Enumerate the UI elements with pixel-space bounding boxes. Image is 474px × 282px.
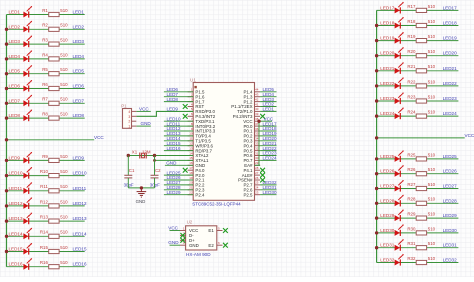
wire VCC to EA# vertical — [258, 121, 260, 165]
svg-text:510: 510 — [428, 152, 436, 157]
svg-text:R20: R20 — [407, 49, 416, 54]
svg-text:LED16: LED16 — [167, 146, 181, 151]
LED LED7 — [23, 95, 32, 107]
wire net LED7 — [7, 102, 85, 104]
svg-text:510: 510 — [428, 94, 436, 99]
svg-text:LED30: LED30 — [443, 228, 457, 233]
svg-text:LED9: LED9 — [73, 155, 85, 160]
pin 13 RD/P3.7 — [188, 146, 213, 153]
svg-text:LED6: LED6 — [9, 84, 21, 89]
svg-text:R30: R30 — [407, 226, 416, 231]
svg-text:LED12: LED12 — [9, 201, 23, 206]
svg-text:31: 31 — [255, 151, 259, 155]
resistor R26 — [416, 172, 426, 176]
svg-text:14: 14 — [189, 151, 193, 155]
LED LED28 — [395, 195, 404, 207]
LED LED29 — [395, 210, 404, 222]
svg-text:R3: R3 — [42, 38, 48, 43]
wire net LED15 — [7, 251, 85, 253]
svg-text:510: 510 — [428, 241, 436, 246]
svg-text:17: 17 — [189, 166, 193, 170]
svg-text:R13: R13 — [40, 215, 49, 220]
pin 2 P1.6 — [188, 93, 205, 100]
LED LED22 — [395, 77, 404, 89]
wire net LED8 to U1 — [164, 101, 193, 103]
resistor R17 — [416, 8, 426, 12]
wire net LED12 to U1 — [164, 130, 193, 132]
wire net GND from P1 pin 1 — [136, 125, 151, 127]
resistor R23 — [416, 99, 426, 103]
svg-text:VCC: VCC — [94, 135, 104, 140]
junction LED13 bus — [5, 219, 8, 222]
pin 27 ALE# — [242, 171, 260, 178]
svg-text:510: 510 — [428, 49, 436, 54]
LED LED25 — [395, 150, 404, 162]
svg-text:LED30: LED30 — [380, 228, 394, 233]
pin 32 P0.5 — [243, 146, 260, 153]
svg-text:LED9: LED9 — [9, 155, 21, 160]
svg-text:LED2: LED2 — [9, 24, 21, 29]
capacitor C2 — [151, 175, 159, 178]
junction VCC tap right — [375, 136, 378, 139]
svg-text:15: 15 — [189, 156, 193, 160]
LED LED27 — [395, 180, 404, 192]
crystal X1 — [140, 153, 146, 159]
svg-text:R7: R7 — [42, 97, 48, 102]
svg-text:R4: R4 — [42, 52, 48, 57]
wire net LED32 — [377, 262, 459, 264]
junction LED2 bus — [5, 28, 8, 31]
svg-text:LED3: LED3 — [9, 39, 21, 44]
svg-text:LED7: LED7 — [73, 98, 85, 103]
svg-text:LED25: LED25 — [380, 154, 394, 159]
svg-text:LED29: LED29 — [167, 190, 181, 195]
svg-text:LED24: LED24 — [380, 111, 394, 116]
junction VCC/EA — [257, 120, 260, 123]
wire net LED26 to U1 — [164, 179, 193, 181]
wire net GND to U2 — [170, 244, 181, 246]
svg-text:4: 4 — [128, 110, 130, 114]
wire net LED14 to U1 — [164, 140, 193, 142]
junction LED31 bus — [375, 246, 378, 249]
junction LED11 bus — [5, 189, 8, 192]
svg-text:LED10: LED10 — [73, 171, 87, 176]
svg-text:X1: X1 — [132, 150, 138, 155]
wire crystal to XTAL2 — [128, 155, 193, 157]
svg-text:R17: R17 — [407, 4, 416, 9]
svg-text:R11: R11 — [40, 184, 48, 189]
svg-text:LED18: LED18 — [443, 21, 457, 26]
LED LED5 — [23, 65, 32, 77]
wire VCC bus right — [376, 10, 378, 262]
pin 15 XTAL1 — [188, 156, 209, 163]
wire net LED31 — [377, 247, 459, 249]
wire net LED3 to U1 — [260, 101, 276, 103]
capacitor C1 — [124, 175, 132, 178]
pin 22 P2.4 — [188, 191, 205, 198]
svg-text:R8: R8 — [42, 112, 48, 117]
wire net LED5 — [7, 73, 85, 75]
svg-text:36: 36 — [255, 127, 259, 131]
junction LED6 bus — [5, 87, 8, 90]
svg-text:510: 510 — [60, 67, 68, 72]
wire net LED5 to U1 — [260, 91, 276, 93]
svg-text:VCC: VCC — [465, 133, 474, 138]
svg-text:LED1: LED1 — [73, 10, 85, 15]
svg-text:18: 18 — [189, 171, 193, 175]
LED LED1 — [23, 6, 32, 18]
wire net LED19 to U1 — [260, 135, 276, 137]
wire net LED4 to U1 — [260, 96, 276, 98]
junction LED30 bus — [375, 231, 378, 234]
pin 44 P1.4 — [243, 88, 260, 95]
svg-text:R28: R28 — [407, 197, 416, 202]
junction LED24 bus — [375, 114, 378, 117]
LED LED14 — [23, 228, 32, 240]
svg-text:3: 3 — [128, 115, 130, 119]
pin 3 D+ of U2 — [180, 236, 195, 243]
pin 20 P2.2 — [188, 181, 205, 188]
resistor R31 — [416, 246, 426, 250]
resistor R15 — [49, 249, 59, 253]
LED LED20 — [395, 47, 404, 59]
wire net LED13 — [7, 220, 85, 222]
svg-text:R21: R21 — [407, 64, 416, 69]
resistor R3 — [49, 42, 59, 46]
no-connect X on E2 — [223, 243, 228, 248]
pin 41 P1.1/T2EX — [231, 102, 260, 109]
svg-text:LED8: LED8 — [73, 113, 85, 118]
svg-text:510: 510 — [428, 4, 436, 9]
wire net LED30 to U1 — [260, 194, 276, 196]
svg-text:P2.5: P2.5 — [243, 192, 253, 197]
svg-text:R19: R19 — [407, 34, 416, 39]
wire net VCC to U1 VCC — [260, 120, 272, 122]
pin 38 VCC — [243, 117, 260, 124]
svg-text:510: 510 — [428, 256, 436, 261]
pin 6 E2 of U2 — [208, 241, 222, 248]
svg-text:R14: R14 — [40, 230, 49, 235]
pin 4 of P1 — [128, 110, 136, 114]
svg-text:LED20: LED20 — [380, 51, 394, 56]
svg-text:43: 43 — [255, 93, 259, 97]
resistor R1 — [49, 12, 59, 16]
svg-text:LED18: LED18 — [380, 21, 394, 26]
svg-text:510: 510 — [428, 212, 436, 217]
LED LED19 — [395, 32, 404, 44]
svg-text:LED20: LED20 — [443, 51, 457, 56]
svg-text:LED31: LED31 — [380, 243, 394, 248]
svg-text:LED28: LED28 — [380, 198, 394, 203]
svg-text:26: 26 — [255, 176, 259, 180]
wire net LED11 — [7, 190, 85, 192]
svg-text:1: 1 — [128, 125, 130, 129]
resistor R5 — [49, 72, 59, 76]
pin 40 T2/P1.0 — [237, 107, 260, 114]
svg-text:U2: U2 — [187, 219, 193, 224]
wire VCC tap right — [377, 137, 465, 139]
svg-text:11: 11 — [189, 137, 192, 141]
junction LED25 bus — [375, 157, 378, 160]
wire net LED15 to U1 — [164, 145, 193, 147]
resistor R6 — [49, 86, 59, 90]
svg-text:GND: GND — [166, 161, 177, 166]
wire net LED21 — [377, 70, 459, 72]
wire net LED18 to U1 — [260, 130, 276, 132]
resistor R9 — [49, 158, 59, 162]
wire net LED8 — [7, 117, 85, 119]
pin 23 P2.5 — [243, 191, 260, 198]
wire net LED28 — [377, 202, 459, 204]
svg-text:510: 510 — [428, 182, 436, 187]
svg-text:R12: R12 — [40, 199, 49, 204]
svg-text:28: 28 — [255, 166, 259, 170]
wire net LED25 to U1 — [164, 174, 193, 176]
svg-text:25: 25 — [255, 181, 259, 185]
svg-text:510: 510 — [60, 112, 68, 117]
svg-text:LED21: LED21 — [443, 66, 457, 71]
wire net LED20 — [377, 55, 459, 57]
LED LED13 — [23, 213, 32, 225]
svg-text:R5: R5 — [42, 67, 48, 72]
pin 11 T1/P3.5 — [188, 137, 212, 144]
svg-text:13: 13 — [189, 146, 193, 150]
pin 35 P0.2 — [243, 132, 260, 139]
svg-text:LED9: LED9 — [167, 107, 179, 112]
pin 42 P1.2 — [243, 97, 260, 104]
svg-text:12: 12 — [189, 142, 193, 146]
wire net LED4 — [7, 58, 85, 60]
svg-text:LED11: LED11 — [9, 186, 23, 191]
svg-text:23: 23 — [255, 191, 259, 195]
svg-text:R22: R22 — [407, 79, 416, 84]
svg-text:2: 2 — [128, 120, 130, 124]
wire ground rail — [128, 187, 154, 189]
pin 39 P4.2/INT3 — [233, 112, 260, 119]
svg-text:R10: R10 — [40, 169, 49, 174]
pin 2 of P1 — [128, 120, 136, 124]
junction LED12 bus — [5, 204, 8, 207]
svg-text:34: 34 — [255, 137, 259, 141]
svg-text:LED22: LED22 — [380, 81, 394, 86]
resistor R21 — [416, 69, 426, 73]
pin 5 E1 of U2 — [208, 227, 222, 234]
junction ground — [140, 186, 143, 189]
svg-text:LED24: LED24 — [263, 156, 277, 161]
svg-text:C1: C1 — [129, 168, 135, 173]
svg-text:R2: R2 — [42, 23, 48, 28]
wire net LED12 — [7, 205, 85, 207]
svg-text:VCC: VCC — [139, 107, 149, 112]
svg-text:30: 30 — [255, 156, 259, 160]
LED LED15 — [23, 243, 32, 255]
LED LED10 — [23, 167, 32, 179]
wire net LED6 — [7, 88, 85, 90]
junction LED3 bus — [5, 42, 8, 45]
svg-text:LED26: LED26 — [380, 169, 394, 174]
wire net LED20 to U1 — [260, 140, 276, 142]
svg-text:LED16: LED16 — [9, 262, 23, 267]
LED LED3 — [23, 36, 32, 48]
pin 1 of P1 — [128, 125, 136, 129]
svg-text:R25: R25 — [407, 152, 416, 157]
junction VCC tap left — [5, 138, 8, 141]
svg-text:GND: GND — [136, 199, 146, 204]
svg-text:LED27: LED27 — [443, 184, 457, 189]
pin 31 P0.6 — [243, 151, 260, 158]
LED LED31 — [395, 239, 404, 251]
svg-text:LED23: LED23 — [380, 96, 394, 101]
LED LED17 — [395, 2, 404, 14]
LED LED12 — [23, 197, 32, 209]
wire net LED25 — [377, 158, 459, 160]
svg-text:E2: E2 — [208, 243, 214, 248]
pin 7 TXD/P3.1 — [188, 117, 215, 124]
wire net LED22 — [377, 85, 459, 87]
pin 29 EA# — [244, 161, 260, 168]
pin 17 P4.0 — [188, 166, 205, 173]
svg-text:R15: R15 — [40, 245, 49, 250]
resistor R10 — [49, 174, 59, 178]
svg-text:510: 510 — [60, 97, 68, 102]
svg-text:510: 510 — [428, 167, 436, 172]
LED LED16 — [23, 258, 32, 270]
wire C2 top — [154, 156, 156, 176]
svg-text:20: 20 — [189, 181, 193, 185]
pin 26 PSEN# — [238, 176, 260, 183]
no-connect X on P4.1 — [260, 168, 265, 173]
svg-text:R16: R16 — [40, 260, 49, 265]
pin 33 P0.4 — [243, 142, 260, 149]
LED LED23 — [395, 92, 404, 104]
junction LED18 bus — [375, 24, 378, 27]
junction LED28 bus — [375, 202, 378, 205]
pin 6 P4.3/INT2 — [188, 112, 216, 119]
junction LED23 bus — [375, 99, 378, 102]
svg-text:LED14: LED14 — [9, 231, 23, 236]
svg-text:LED4: LED4 — [73, 54, 85, 59]
svg-text:510: 510 — [60, 169, 68, 174]
LED LED24 — [395, 108, 404, 120]
wire net LED17 — [377, 9, 459, 11]
svg-text:R32: R32 — [407, 256, 416, 261]
svg-text:LED15: LED15 — [73, 247, 87, 252]
pin 4 GND of U2 — [180, 241, 199, 248]
svg-text:P2.4: P2.4 — [195, 192, 205, 197]
svg-text:510: 510 — [60, 52, 68, 57]
svg-text:510: 510 — [428, 34, 436, 39]
svg-text:510: 510 — [60, 154, 68, 159]
svg-text:510: 510 — [428, 64, 436, 69]
svg-text:510: 510 — [428, 110, 436, 115]
svg-text:510: 510 — [60, 199, 68, 204]
junction LED19 bus — [375, 39, 378, 42]
wire net LED18 — [377, 25, 459, 27]
LED LED18 — [395, 17, 404, 29]
svg-text:510: 510 — [428, 226, 436, 231]
svg-text:LED19: LED19 — [443, 36, 457, 41]
wire C2 bottom — [154, 178, 156, 188]
wire net LED32 to U1 — [260, 184, 276, 186]
wire crystal to XTAL1 — [155, 159, 194, 161]
pin 12 WR/P3.6 — [188, 142, 214, 149]
svg-text:510: 510 — [60, 260, 68, 265]
resistor R13 — [49, 219, 59, 223]
svg-text:29: 29 — [255, 161, 259, 165]
junction LED22 bus — [375, 84, 378, 87]
svg-text:510: 510 — [60, 230, 68, 235]
svg-text:LED3: LED3 — [73, 39, 85, 44]
svg-text:LED8: LED8 — [167, 97, 179, 102]
no-connect X on D- — [180, 233, 185, 238]
svg-text:LED13: LED13 — [9, 216, 23, 221]
pin 19 P2.1 — [188, 176, 205, 183]
svg-text:LED14: LED14 — [73, 231, 87, 236]
svg-text:LED16: LED16 — [73, 262, 87, 267]
resistor R4 — [49, 57, 59, 61]
svg-text:LED2: LED2 — [73, 24, 85, 29]
wire net LED7 to U1 — [164, 96, 193, 98]
no-connect X on P4.3/INT2 — [183, 114, 188, 119]
pin 18 P2.0 — [188, 171, 205, 178]
resistor R30 — [416, 231, 426, 235]
wire net LED29 — [377, 217, 459, 219]
svg-text:24: 24 — [255, 186, 259, 190]
svg-text:40: 40 — [255, 107, 259, 111]
pin 43 P1.3 — [243, 93, 260, 100]
svg-text:LED28: LED28 — [443, 198, 457, 203]
wire net LED24 to U1 — [260, 159, 276, 161]
wire net LED22 to U1 — [260, 150, 276, 152]
junction LED8 bus — [5, 116, 8, 119]
LED LED8 — [23, 110, 32, 122]
svg-text:LED17: LED17 — [380, 5, 394, 10]
wire net LED9 — [7, 159, 85, 161]
pin 2 D- of U2 — [180, 231, 194, 238]
resistor R14 — [49, 234, 59, 238]
LED LED32 — [395, 254, 404, 266]
no-connect X on P4.0 — [183, 168, 188, 173]
pin 3 of P1 — [128, 115, 136, 119]
wire net LED1 — [7, 14, 85, 16]
svg-text:16: 16 — [189, 161, 193, 165]
LED LED11 — [23, 182, 32, 194]
resistor R2 — [49, 27, 59, 31]
svg-text:510: 510 — [60, 82, 68, 87]
wire net LED1 to U1 — [260, 110, 276, 112]
svg-text:R9: R9 — [42, 154, 48, 159]
svg-text:GND: GND — [141, 121, 152, 126]
no-connect X on E1 — [223, 228, 228, 233]
wire net LED23 — [377, 100, 459, 102]
no-connect X on PSEN# — [260, 178, 265, 183]
op-amp U1 body (MCU STC89C52) — [193, 83, 254, 201]
pin 1 marker dot — [194, 86, 196, 88]
svg-text:510: 510 — [60, 8, 68, 13]
LED LED21 — [395, 62, 404, 74]
svg-text:42: 42 — [255, 97, 259, 101]
junction LED5 bus — [5, 72, 8, 75]
resistor R7 — [49, 101, 59, 105]
wire net LED13 to U1 — [164, 135, 193, 137]
pin 25 P2.7 — [243, 181, 260, 188]
svg-text:LED21: LED21 — [380, 66, 394, 71]
svg-text:LED1: LED1 — [9, 10, 21, 15]
wire C1 top — [127, 156, 129, 176]
svg-text:LED13: LED13 — [73, 216, 87, 221]
svg-text:41: 41 — [255, 102, 259, 106]
wire net LED27 to U1 — [164, 184, 193, 186]
